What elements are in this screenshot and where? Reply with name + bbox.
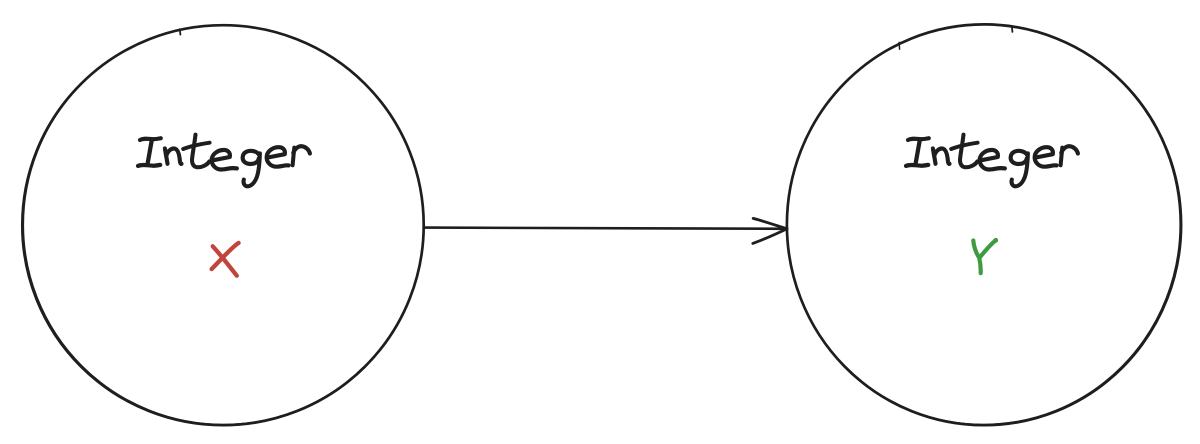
node circle left (Integer X) (22, 25, 423, 425)
node circle right (Integer Y) (787, 24, 1181, 425)
arrow (left circle to right circle) (425, 218, 787, 243)
label Integer (right) (906, 135, 1078, 187)
label Integer (left) (138, 135, 310, 187)
value X (red, left circle) (212, 243, 239, 276)
value Y (green, right circle) (973, 238, 998, 273)
